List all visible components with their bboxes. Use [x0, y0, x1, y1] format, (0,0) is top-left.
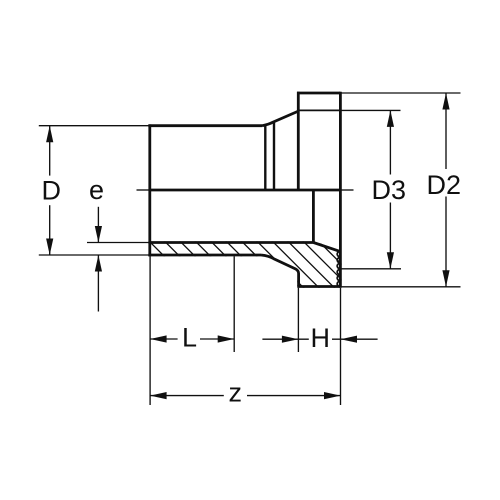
body right edge: [339, 92, 342, 288]
svg-text:H: H: [311, 323, 331, 353]
dimension e arrows: [97, 207, 99, 312]
extension line L right: [233, 256, 235, 352]
body left edge: [148, 124, 151, 256]
collar left edge: [297, 92, 300, 190]
svg-text:D3: D3: [372, 175, 407, 205]
svg-text:D2: D2: [427, 170, 462, 200]
extension line L left / z left: [149, 256, 151, 405]
extension line D3 bottom: [340, 268, 401, 270]
svg-text:z: z: [229, 377, 243, 407]
dimension D3 line: [389, 110, 391, 268]
extension line D bottom / hatch bottom: [39, 254, 150, 256]
body top edge: [148, 124, 262, 127]
extension line H left: [297, 288, 299, 352]
extension line D2 bottom: [340, 286, 460, 288]
dimension D line: [49, 126, 51, 255]
dimension L line: [150, 338, 234, 340]
dimension D2 line: [445, 93, 447, 287]
cone silhouette line 1: [264, 125, 266, 190]
bore step vertical: [312, 190, 315, 243]
svg-text:D: D: [42, 176, 62, 206]
flange S-curve edge: [261, 255, 299, 287]
dimension H line: [262, 338, 377, 340]
dimension D arrowheads: [46, 126, 53, 255]
hatch lines of section: [102, 240, 398, 290]
bore top edge (section): [148, 241, 313, 244]
svg-text:e: e: [89, 175, 104, 205]
sleeve outer bottom edge (section): [148, 254, 261, 257]
flange bottom edge: [297, 285, 340, 288]
extension line D top: [39, 125, 150, 127]
body taper slant: [262, 111, 298, 125]
collar groove line: [298, 109, 340, 111]
collar top edge: [297, 92, 340, 95]
extension line e top: [87, 242, 150, 244]
bore step slant: [313, 243, 339, 252]
extension line D3 top: [340, 109, 400, 111]
extension line H right / z right: [340, 288, 342, 405]
serrated flange face: [337, 251, 339, 287]
svg-text:L: L: [182, 322, 197, 352]
cone silhouette line 2: [273, 122, 275, 190]
extension line D2 top: [340, 92, 460, 94]
dimension z line: [150, 395, 340, 397]
wire: centerline axis: [137, 189, 354, 191]
